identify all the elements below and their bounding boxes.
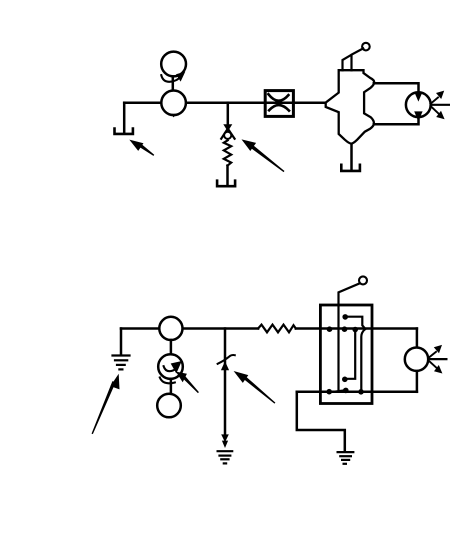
arrow annotation to drive circle — [176, 372, 199, 393]
wire: CV1 bottom port to motor — [374, 116, 419, 124]
motor M1 variable arrows — [431, 98, 439, 114]
node: SV1 upper tap dot — [342, 314, 348, 320]
hydraulic motor M1 — [406, 92, 431, 117]
bypass double down arrowheads — [221, 434, 229, 448]
wire: main line corner down to motor M2 — [416, 329, 419, 348]
wire: drive to pump — [172, 76, 175, 91]
pump P1 — [161, 91, 186, 116]
venturi curves — [268, 94, 288, 101]
long arrow annotation to G1 — [92, 374, 119, 434]
wire: upper tap across and down with hop — [345, 317, 365, 392]
pilot circle on SV1 — [359, 276, 367, 284]
wire: left drop to ground — [120, 329, 123, 354]
control valve CV1 body — [326, 70, 375, 143]
hydraulic motor M2 — [405, 348, 428, 371]
pump drive circle (rotation indicator) — [161, 52, 186, 77]
wire: tilted link between return dots — [329, 390, 346, 392]
spring S1 — [224, 140, 231, 165]
node: elbow dot — [342, 377, 348, 383]
pilot diagonal wire — [339, 283, 360, 390]
wire: spring to reservoir — [226, 166, 229, 186]
wire: top main supply line — [124, 101, 326, 104]
wire: bottom main line — [121, 327, 417, 330]
reservoir T2 (below spring) — [217, 181, 235, 187]
wire: branch down to relief check valve — [227, 103, 230, 126]
node dots on return line — [326, 388, 363, 395]
wire: return line up to motor M2 — [416, 371, 419, 392]
wire: CV1 drain to reservoir — [350, 144, 353, 171]
wire: return elbow to ground — [297, 392, 345, 452]
servo valve SV1 box — [320, 305, 372, 404]
check valve V1: ball — [224, 132, 231, 139]
ground G2 — [218, 451, 233, 463]
arrow annotation to T1 — [129, 140, 154, 156]
pump P1 outlet tick — [171, 114, 177, 118]
node dots on SV1 main line — [327, 326, 358, 332]
wire: bypass branch down — [224, 329, 227, 436]
reservoir T1 (tank, top-left) — [115, 129, 133, 134]
wire: center tap down to elbow — [345, 330, 355, 379]
check valve V1: seat — [221, 129, 234, 139]
restrictor R1 zigzag — [258, 325, 296, 333]
rotation arc below drive circle — [160, 378, 175, 384]
pilot linkage wires — [343, 48, 364, 70]
drive circle (middle, with rotation arrow) — [158, 354, 183, 379]
pump P2 — [159, 317, 182, 340]
motor M1 flow triangles — [414, 92, 422, 102]
wire: P2 to drive circle — [170, 340, 173, 355]
venturi / flow sensor FX1 box — [265, 91, 293, 117]
wire: drive to pump P3 — [170, 379, 173, 394]
arrow annotation to bypass — [234, 371, 275, 403]
pilot circle on CV1 — [362, 43, 370, 51]
arrow annotation to check valve — [242, 139, 285, 171]
variable slash on bypass — [218, 355, 235, 364]
check valve V1: down arrowhead — [224, 125, 231, 131]
rotation arrow under drive circle — [161, 75, 179, 82]
motor M2 variable arrows — [428, 352, 436, 368]
pump P3 (bottom circle) — [157, 394, 181, 418]
motor M2 output shaft line — [428, 358, 446, 360]
ground G3 — [338, 452, 354, 464]
motor M1 output shaft line — [431, 104, 449, 106]
wire: bottom return line — [297, 391, 417, 394]
wire: CV1 top port to motor — [374, 83, 419, 94]
bypass up arrowhead — [221, 361, 229, 370]
wire: left drop to reservoir — [123, 103, 126, 134]
reservoir T3 (below CV1) — [341, 165, 360, 171]
ground G1 — [113, 356, 130, 370]
rotation arrow inside drive circle — [164, 366, 176, 371]
